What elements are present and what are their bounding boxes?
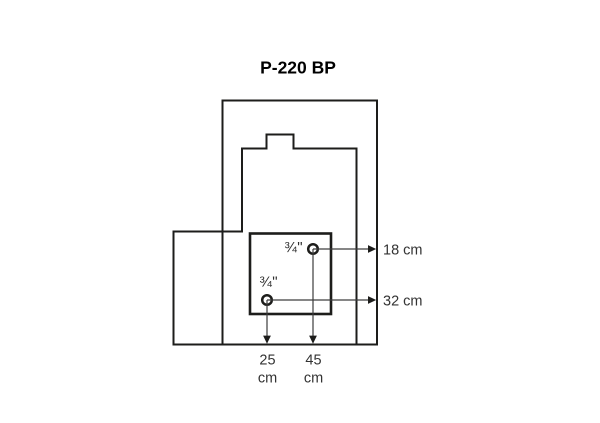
svg-text:25: 25: [259, 353, 275, 369]
svg-text:18 cm: 18 cm: [383, 242, 423, 258]
svg-text:45: 45: [305, 353, 321, 369]
svg-text:P-220 BP: P-220 BP: [260, 58, 336, 78]
svg-text:¾": ¾": [284, 239, 303, 256]
svg-text:cm: cm: [304, 371, 323, 387]
svg-text:¾": ¾": [259, 274, 278, 291]
svg-text:cm: cm: [258, 371, 277, 387]
svg-text:32 cm: 32 cm: [383, 293, 423, 309]
